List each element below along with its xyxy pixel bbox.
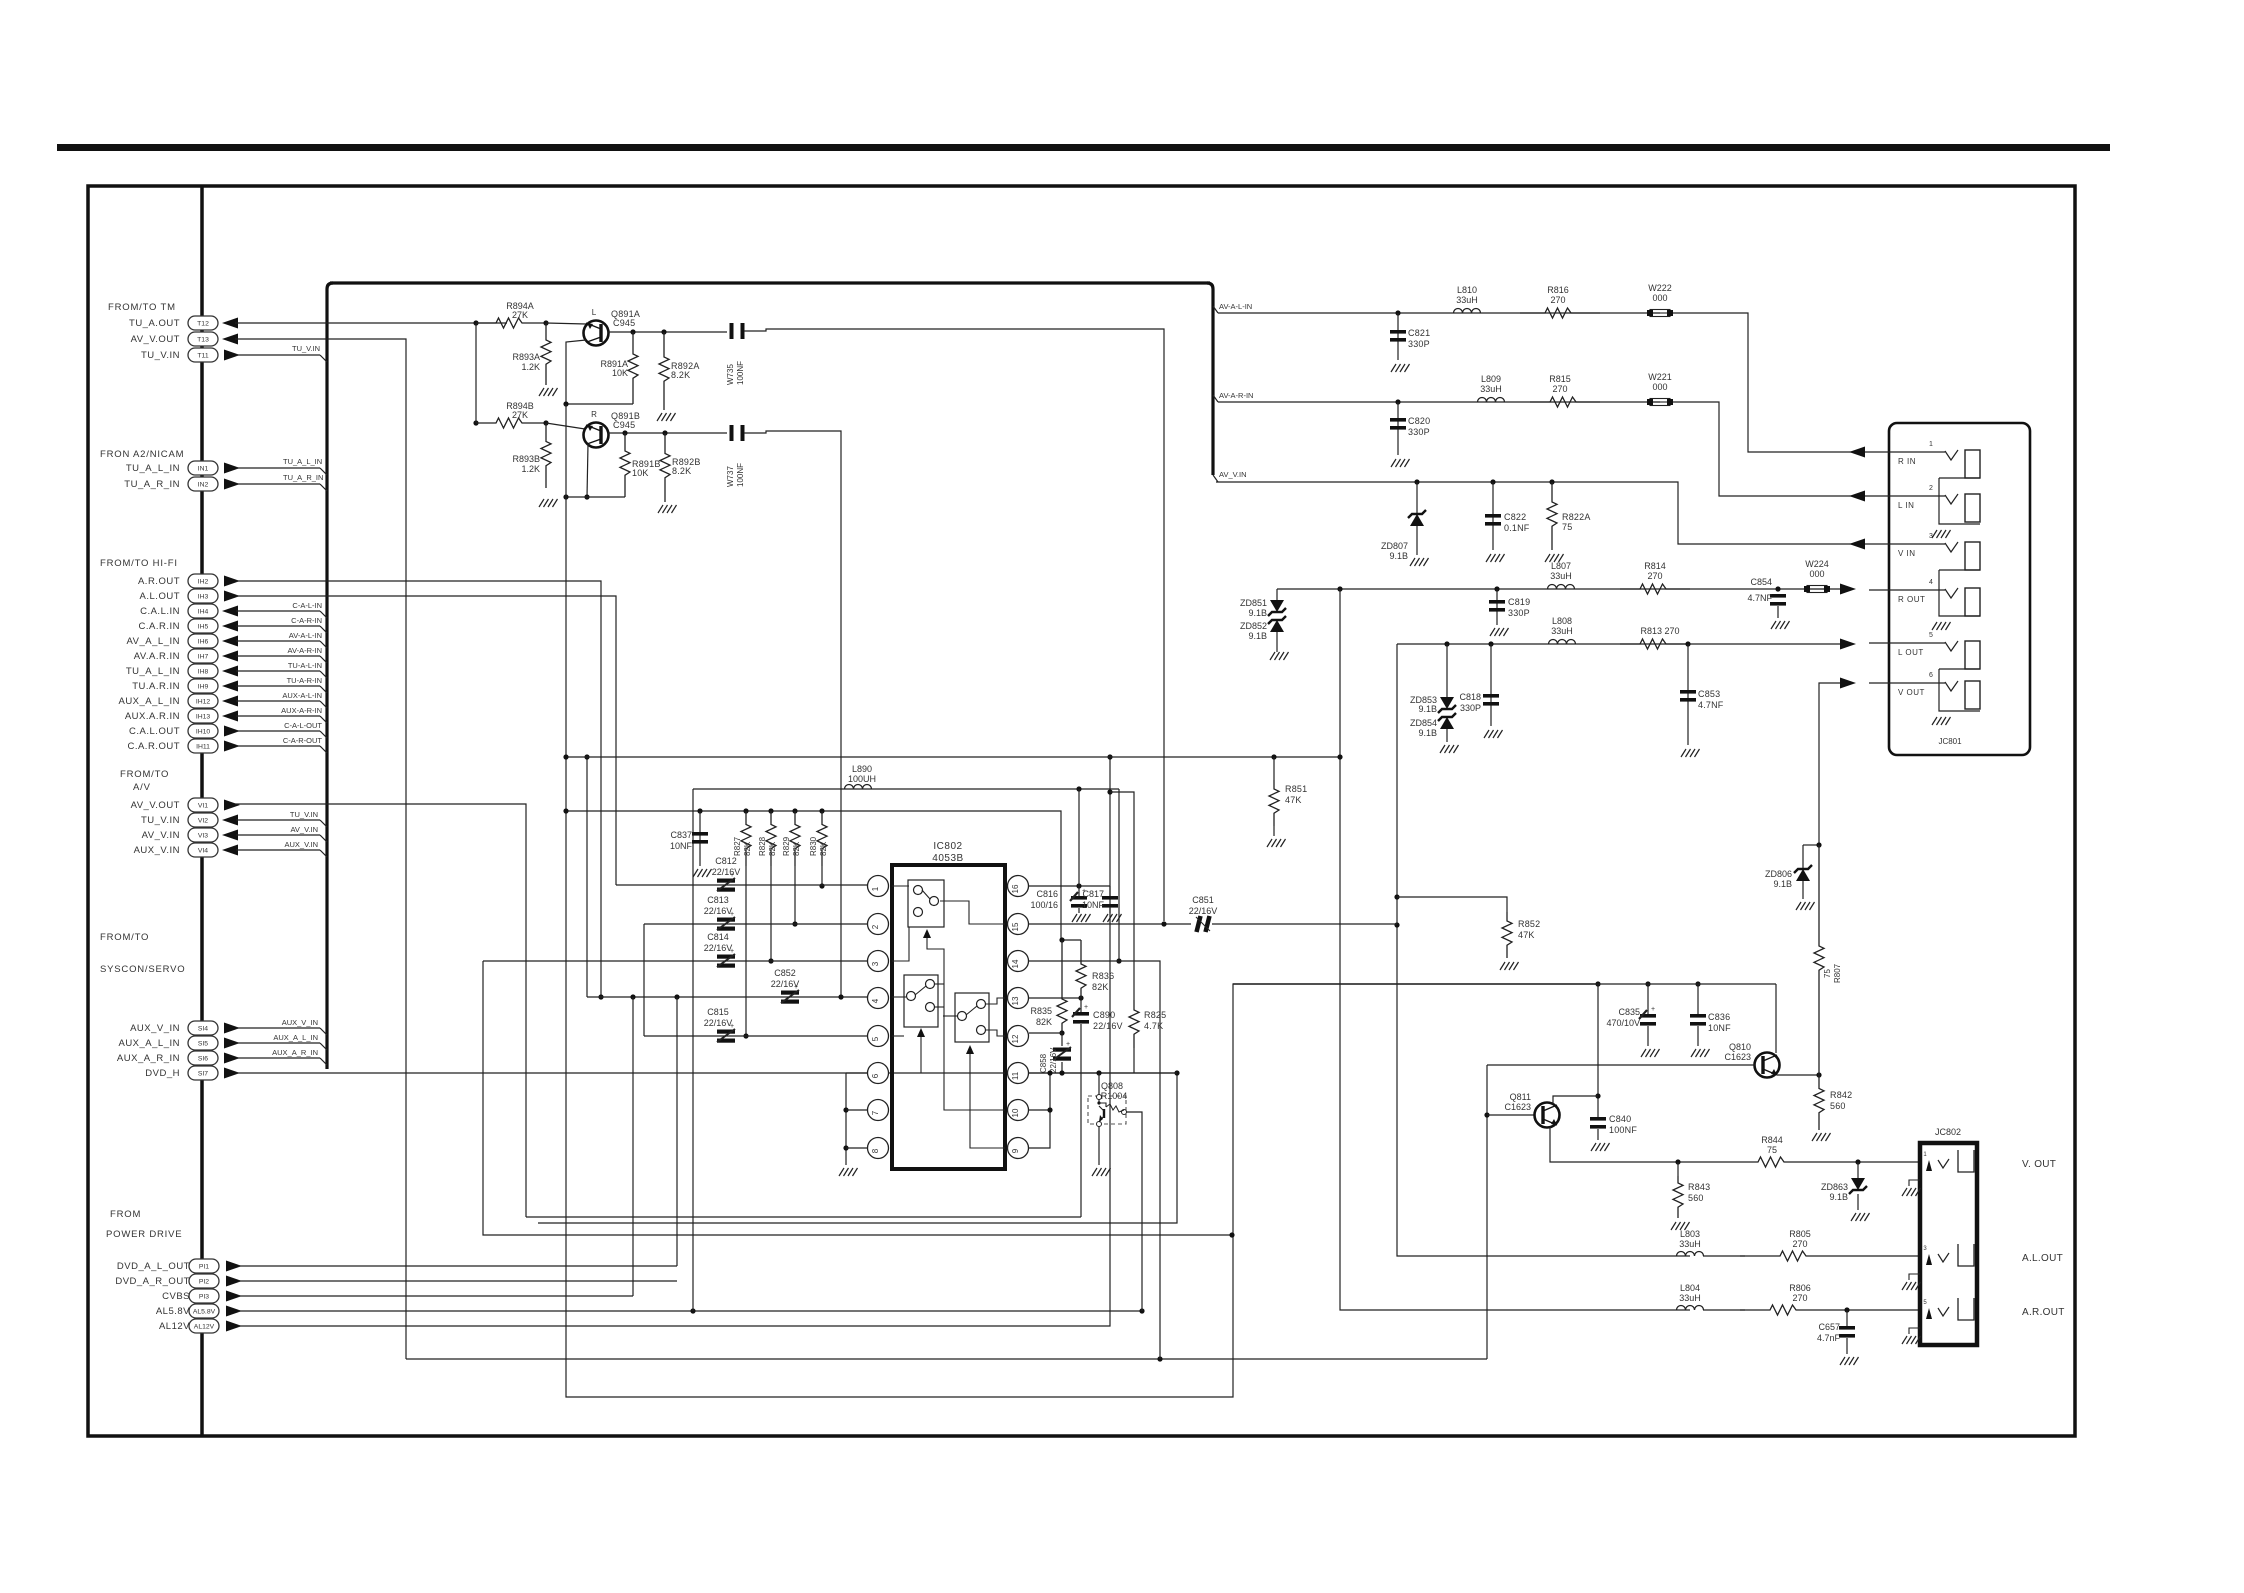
inductor L810	[1454, 309, 1481, 314]
svg-text:R815: R815	[1549, 374, 1571, 384]
svg-text:82K: 82K	[819, 841, 828, 856]
svg-text:A.L.OUT: A.L.OUT	[2022, 1253, 2063, 1264]
connector pill AL12V	[189, 1319, 219, 1333]
wire C836 to Q810	[1233, 983, 1776, 985]
svg-text:VI2: VI2	[198, 818, 208, 825]
svg-text:L807: L807	[1551, 561, 1571, 571]
transistor Q810	[1755, 1053, 1780, 1078]
svg-text:SI7: SI7	[198, 1071, 208, 1078]
wire C822 stub	[1492, 482, 1494, 550]
resistor R836	[1080, 940, 1082, 958]
resistor R815	[1530, 397, 1600, 407]
wire IH C-A-L-IN	[236, 610, 320, 612]
arrow IH10	[224, 726, 240, 737]
svg-text:4: 4	[1929, 579, 1933, 586]
svg-text:IH8: IH8	[198, 669, 209, 676]
connector pill IH3	[188, 589, 218, 603]
jack gnd A.R.OUT	[1909, 1328, 1920, 1334]
junction v1397 R852	[1394, 894, 1399, 899]
node R894A out	[543, 320, 548, 325]
junction R828	[768, 808, 773, 813]
wire W221 to L IN	[1673, 402, 1869, 496]
svg-text:R842: R842	[1830, 1090, 1852, 1100]
svg-text:330P: 330P	[1508, 608, 1530, 618]
svg-text:C819: C819	[1508, 597, 1530, 607]
wire T11 to bus	[236, 354, 320, 356]
wire IH AUX-A-L-IN	[236, 700, 320, 702]
bevel TU-A-L-IN	[320, 671, 327, 678]
wire R844 to JC802	[1800, 1161, 1920, 1163]
svg-text:82K: 82K	[768, 841, 777, 856]
ground C817	[1103, 914, 1108, 922]
wire SI AUX_A_R_IN	[236, 1057, 320, 1059]
wire v693	[692, 789, 694, 1311]
svg-text:C837: C837	[670, 830, 692, 840]
svg-text:TU_V.IN: TU_V.IN	[290, 810, 318, 819]
jack gnd V. OUT	[1909, 1180, 1920, 1186]
svg-text:C-A-R-OUT: C-A-R-OUT	[283, 736, 323, 745]
svg-text:7: 7	[871, 1110, 880, 1115]
bus trunk top horizontal	[330, 281, 1210, 284]
arrow IH2	[224, 576, 240, 587]
wire Q810 collector	[1775, 984, 1777, 1053]
svg-text:Q811: Q811	[1510, 1092, 1531, 1102]
svg-text:33uH: 33uH	[1679, 1239, 1701, 1249]
ground ZD854	[1440, 745, 1445, 753]
svg-text:33uH: 33uH	[1456, 295, 1478, 305]
svg-text:TU_V.IN: TU_V.IN	[141, 815, 180, 826]
svg-text:IH6: IH6	[198, 639, 209, 646]
svg-text:22/16V: 22/16V	[712, 867, 741, 877]
svg-text:L810: L810	[1457, 285, 1477, 295]
svg-text:A.L.OUT: A.L.OUT	[140, 591, 180, 602]
node C822	[1490, 479, 1495, 484]
bevel SI AUX_A_R_IN	[320, 1058, 327, 1065]
ground C816	[1072, 914, 1077, 922]
svg-text:47K: 47K	[1285, 795, 1302, 805]
svg-text:75: 75	[1562, 522, 1572, 532]
arrow VI4	[222, 845, 238, 856]
svg-text:L808: L808	[1552, 616, 1572, 626]
bevel SI AUX_A_L_IN	[320, 1043, 327, 1050]
svg-text:R814: R814	[1644, 561, 1666, 571]
svg-text:IH7: IH7	[198, 654, 209, 661]
bevel T11	[320, 355, 327, 362]
svg-text:R: R	[591, 410, 597, 419]
svg-text:R827: R827	[733, 836, 742, 856]
junction R828 bottom	[768, 958, 773, 963]
node y490	[563, 494, 568, 499]
svg-text:AV-A-R-IN: AV-A-R-IN	[288, 646, 322, 655]
jumper W221	[1650, 399, 1670, 406]
wire C657 stub	[1846, 1310, 1848, 1326]
svg-text:0.1NF: 0.1NF	[1504, 523, 1530, 533]
svg-text:AV.A.R.IN: AV.A.R.IN	[134, 651, 180, 662]
jack L IN	[1869, 495, 1945, 497]
wire C817 gnd	[1109, 886, 1111, 896]
pin 15 circle	[1008, 914, 1029, 935]
svg-text:11: 11	[1011, 1071, 1020, 1080]
svg-text:6: 6	[871, 1073, 880, 1078]
wire C837 stub	[699, 811, 701, 866]
svg-text:22/16V: 22/16V	[1189, 906, 1218, 916]
wire C854 gnd	[1777, 606, 1779, 618]
junction R827	[743, 808, 748, 813]
SW1 out wire	[940, 901, 1005, 924]
svg-text:1: 1	[1929, 441, 1933, 448]
inductor L804	[1677, 1306, 1704, 1311]
svg-text:ZD851: ZD851	[1240, 598, 1267, 608]
wire C657 gnd	[1846, 1338, 1848, 1354]
resistor R805	[1740, 1251, 1850, 1261]
connector pill PI2	[189, 1274, 219, 1288]
arrow SI4	[224, 1023, 240, 1034]
capacitor W735	[730, 323, 734, 339]
wire C835 gnd	[1647, 1026, 1649, 1046]
svg-text:C.A.L.OUT: C.A.L.OUT	[129, 726, 180, 737]
svg-text:14: 14	[1011, 959, 1020, 968]
wire IH2 A.R.OUT	[236, 581, 601, 997]
junction v1397 pin15	[1394, 922, 1399, 927]
svg-text:1.2K: 1.2K	[521, 362, 540, 372]
svg-text:4053B: 4053B	[932, 853, 963, 864]
svg-text:C836: C836	[1708, 1012, 1730, 1022]
svg-text:R805: R805	[1789, 1229, 1811, 1239]
svg-text:C.A.L.IN: C.A.L.IN	[140, 606, 180, 617]
wire v633	[632, 997, 634, 1296]
ground C657	[1840, 1357, 1845, 1365]
svg-text:DVD_A_L_OUT: DVD_A_L_OUT	[117, 1261, 190, 1272]
svg-text:PI1: PI1	[199, 1264, 209, 1271]
ground C819	[1490, 628, 1495, 636]
capacitor C815	[717, 1030, 735, 1034]
svg-text:C835: C835	[1618, 1007, 1640, 1017]
junction R836 stub	[1059, 937, 1064, 942]
svg-text:22/16V: 22/16V	[771, 979, 800, 989]
wire L OUT row	[1397, 643, 1840, 645]
junction y757 v1340	[1337, 754, 1342, 759]
svg-text:R843: R843	[1688, 1182, 1710, 1192]
wire Q810 emitter	[1777, 1074, 1819, 1076]
wire R OUT row	[1277, 588, 1840, 590]
node C819	[1494, 586, 1499, 591]
svg-text:VI3: VI3	[198, 833, 208, 840]
connector pill IN2	[188, 477, 218, 491]
capacitor C835	[1640, 1014, 1656, 1018]
resistor R852	[1502, 912, 1512, 958]
wire pin9 row	[1029, 1073, 1050, 1148]
wire pin7 stub	[846, 1109, 868, 1111]
ground Q808	[1092, 1168, 1097, 1176]
junction bias v566	[563, 808, 568, 813]
svg-text:33uH: 33uH	[1551, 626, 1573, 636]
wire pin2 row	[644, 923, 868, 925]
wire v1397	[1397, 644, 1690, 1256]
svg-text:9.1B: 9.1B	[1418, 728, 1437, 738]
capacitor C818	[1483, 694, 1499, 698]
svg-text:C-A-L-OUT: C-A-L-OUT	[284, 721, 322, 730]
wire Q811 emitter	[1550, 1127, 1746, 1162]
ground pins678	[839, 1168, 844, 1176]
wire T12 to R894A node	[235, 322, 476, 324]
resistor R828	[766, 811, 776, 866]
node R851	[1271, 754, 1276, 759]
junction pin8	[843, 1145, 848, 1150]
arrow L OUT	[1840, 639, 1856, 650]
svg-text:C945: C945	[613, 318, 635, 328]
wire ZD853 stub	[1446, 644, 1448, 697]
connector pill IH9	[188, 679, 218, 693]
junction rail pin14	[1116, 958, 1121, 963]
wire to Q891A	[546, 323, 586, 324]
resistor R892B	[660, 433, 670, 502]
svg-text:C.A.R.IN: C.A.R.IN	[139, 621, 180, 632]
wire to Q891B	[546, 423, 585, 429]
bevel AV-A-L-IN	[320, 641, 327, 648]
bevel IN1	[320, 468, 327, 475]
svg-text:JC801: JC801	[1938, 737, 1962, 746]
svg-text:C851: C851	[1192, 895, 1214, 905]
wire Q808 base stub	[1098, 1073, 1100, 1096]
svg-text:ZD863: ZD863	[1821, 1182, 1848, 1192]
svg-text:L804: L804	[1680, 1283, 1700, 1293]
resistor R829	[790, 811, 800, 866]
wire IN2 to bus	[236, 483, 320, 485]
zener ZD806 stub	[1803, 844, 1819, 846]
svg-text:10: 10	[1011, 1108, 1020, 1117]
svg-text:Q808: Q808	[1101, 1081, 1123, 1091]
wire SI AUX_A_L_IN	[236, 1042, 320, 1044]
resistor R814	[1620, 584, 1690, 594]
svg-text:DVD_A_R_OUT: DVD_A_R_OUT	[115, 1276, 190, 1287]
zener ZD806	[1796, 869, 1810, 881]
ground R893B	[539, 499, 544, 507]
svg-text:AUX_V_IN: AUX_V_IN	[282, 1018, 318, 1027]
capacitor C812	[717, 879, 735, 883]
capacitor C854	[1770, 594, 1786, 598]
jack V. OUT	[1926, 1160, 1932, 1171]
node C853	[1685, 641, 1690, 646]
svg-text:IH11: IH11	[196, 744, 210, 751]
svg-text:V. OUT: V. OUT	[2022, 1159, 2056, 1170]
svg-text:27K: 27K	[512, 410, 528, 420]
resistor R843	[1673, 1176, 1683, 1218]
svg-text:AUX_A_L_IN: AUX_A_L_IN	[118, 1038, 180, 1049]
wire Q891A emitter return	[566, 340, 586, 404]
capacitor C858	[1061, 1033, 1063, 1046]
svg-text:R813 270: R813 270	[1640, 626, 1679, 636]
node Q891B emitter	[584, 494, 589, 499]
SW2 control	[920, 1032, 922, 1073]
switch SW3	[955, 993, 989, 1042]
wire IN1 to bus	[236, 467, 320, 469]
wire Q811 collector	[1553, 1096, 1598, 1104]
junction v483 end	[1229, 1232, 1234, 1237]
svg-text:DVD_H: DVD_H	[145, 1068, 180, 1079]
zener ZD851	[1270, 600, 1284, 612]
wire IH C-A-L-OUT	[236, 730, 320, 732]
svg-text:C816: C816	[1036, 889, 1058, 899]
svg-text:VI4: VI4	[198, 848, 208, 855]
pin 13 circle	[1008, 988, 1029, 1009]
ground R892A	[657, 413, 662, 421]
ground C818	[1484, 730, 1489, 738]
junction AL12V 792	[1107, 789, 1112, 794]
junction R830	[819, 808, 824, 813]
svg-text:L803: L803	[1680, 1229, 1700, 1239]
svg-text:R829: R829	[782, 836, 791, 856]
left column divider	[200, 186, 204, 1436]
svg-text:2: 2	[871, 924, 880, 929]
connector pill T11	[188, 348, 218, 362]
svg-text:82K: 82K	[1092, 982, 1109, 992]
junction R829	[792, 808, 797, 813]
svg-text:C945: C945	[613, 420, 635, 430]
connector pill T12	[188, 316, 218, 330]
svg-text:C.A.R.OUT: C.A.R.OUT	[127, 741, 180, 752]
capacitor C822	[1485, 514, 1501, 518]
wire C820 stub	[1397, 402, 1399, 455]
wire VI AV_V.IN	[236, 834, 320, 836]
arrow IN2	[224, 479, 240, 490]
ground C820	[1391, 459, 1396, 467]
arrow T13	[222, 334, 238, 345]
arrow VI3	[222, 830, 238, 841]
node C836	[1695, 981, 1700, 986]
wire IH AV-A-L-IN	[236, 640, 320, 642]
wire AV-A-L-IN row	[1218, 312, 1660, 314]
transistor Q891B	[584, 423, 609, 448]
svg-text:C818: C818	[1459, 692, 1481, 702]
wire ZD806 v	[1802, 845, 1804, 869]
junction C816 top	[1076, 883, 1081, 888]
arrow V OUT	[1840, 678, 1856, 689]
capacitor C851	[1197, 916, 1201, 932]
wire y757	[566, 756, 1340, 758]
wire Q891B emitter	[587, 444, 588, 497]
pin 10 circle	[1008, 1100, 1029, 1121]
wire PI2	[238, 1280, 677, 1282]
svg-text:C853: C853	[1698, 689, 1720, 699]
svg-text:C813: C813	[707, 895, 729, 905]
ground R893A	[539, 388, 544, 396]
bevel C-A-L-IN	[320, 611, 327, 618]
svg-text:R828: R828	[758, 836, 767, 856]
pin 9 circle	[1008, 1138, 1029, 1159]
svg-text:C852: C852	[774, 968, 796, 978]
svg-text:IH5: IH5	[198, 624, 209, 631]
capacitor C840	[1590, 1117, 1606, 1121]
pin 11 circle	[1008, 1063, 1029, 1084]
svg-text:4.7nF: 4.7nF	[1817, 1333, 1841, 1343]
connector pill SI5	[188, 1036, 218, 1050]
svg-text:IH2: IH2	[198, 579, 209, 586]
pin 7 circle	[868, 1100, 889, 1121]
wire Q811 base	[1487, 1114, 1535, 1116]
bus trunk left vertical	[325, 289, 328, 1069]
zener ZD853	[1440, 697, 1454, 709]
svg-text:FROM: FROM	[110, 1209, 141, 1220]
ground R822A	[1545, 554, 1550, 562]
bevel IN2	[320, 484, 327, 491]
connector pill VI2	[188, 813, 218, 827]
arrow IH12	[222, 696, 238, 707]
connector pill PI1	[189, 1259, 219, 1273]
bevel AV-A-R-IN	[1213, 395, 1218, 402]
node C821	[1395, 310, 1400, 315]
svg-text:8.2K: 8.2K	[671, 370, 690, 380]
svg-text:2: 2	[1929, 485, 1933, 492]
zener ZD863	[1851, 1178, 1865, 1190]
arrow PI1	[226, 1261, 242, 1272]
connector pill VI1	[188, 798, 218, 812]
pin 1 circle	[868, 876, 889, 897]
zener ZD852	[1270, 620, 1284, 632]
wire Q891B collector	[608, 432, 727, 434]
node C835	[1645, 981, 1650, 986]
junction v677 pin4	[674, 994, 679, 999]
svg-text:AUX_A_L_IN: AUX_A_L_IN	[273, 1033, 318, 1042]
capacitor W737	[730, 425, 734, 441]
svg-text:AUX.A.R.IN: AUX.A.R.IN	[125, 711, 180, 722]
junction R827 bottom	[743, 1033, 748, 1038]
capacitor C837	[692, 832, 708, 836]
svg-text:A.R.OUT: A.R.OUT	[2022, 1307, 2065, 1318]
svg-text:V OUT: V OUT	[1898, 688, 1925, 697]
resistor R807	[1814, 845, 1824, 1075]
svg-text:W735: W735	[726, 364, 735, 385]
wire pin2 line	[643, 924, 645, 1036]
wire SI7 DVD_H	[236, 1072, 1177, 1074]
svg-text:C820: C820	[1408, 416, 1430, 426]
svg-text:270: 270	[1792, 1239, 1807, 1249]
svg-text:10NF: 10NF	[1082, 900, 1105, 910]
arrow SI5	[224, 1038, 240, 1049]
IC802 body	[892, 865, 1005, 1169]
ground C853	[1681, 749, 1686, 757]
pin 16 circle	[1008, 876, 1029, 897]
junction ZD863	[1855, 1159, 1860, 1164]
SW3 wires	[985, 998, 1005, 1004]
arrow R IN	[1849, 447, 1865, 458]
ground C835	[1641, 1049, 1646, 1057]
svg-text:000: 000	[1652, 293, 1667, 303]
svg-text:R893A: R893A	[512, 352, 540, 362]
wire L804-R806	[1703, 1309, 1745, 1311]
wire C851 out	[1212, 923, 1397, 925]
junction pin11 C858	[1059, 1070, 1064, 1075]
svg-text:100NF: 100NF	[736, 463, 745, 487]
svg-text:560: 560	[1830, 1101, 1846, 1111]
resistor R891A	[628, 332, 638, 404]
svg-text:C821: C821	[1408, 328, 1430, 338]
arrow PI2	[226, 1276, 242, 1287]
svg-text:IH13: IH13	[196, 714, 211, 721]
wire v483	[483, 961, 1232, 1235]
wire pin4 row	[587, 996, 868, 998]
connector pill IH13	[188, 709, 218, 723]
jack R OUT	[1869, 589, 1945, 591]
svg-text:330P: 330P	[1408, 339, 1430, 349]
junction W737 pin4	[838, 994, 843, 999]
wire C835 line continues	[1233, 983, 1598, 985]
wire pin5 row2	[644, 1035, 868, 1037]
svg-text:3: 3	[871, 961, 880, 966]
svg-text:PI3: PI3	[199, 1294, 209, 1301]
capacitor C852	[781, 991, 799, 995]
arrow VI1	[224, 800, 240, 811]
arrow IH4	[222, 606, 238, 617]
